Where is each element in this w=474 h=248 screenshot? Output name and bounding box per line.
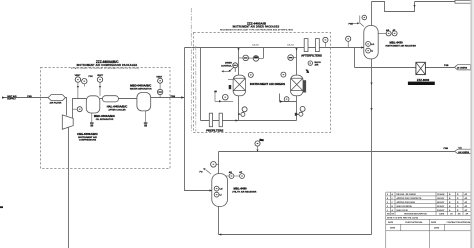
svg-text:INSTRUMENT AIR DRIERS: INSTRUMENT AIR DRIERS (250, 82, 285, 86)
svg-text:0: 0 (392, 198, 393, 200)
svg-text:VENT: VENT (97, 75, 103, 77)
svg-text:NOTE: P. ID SYM. PER STD 123 N: NOTE: P. ID SYM. PER STD 123 ND (387, 217, 419, 219)
svg-text:2: 2 (387, 206, 388, 208)
svg-text:PSV: PSV (89, 76, 94, 78)
svg-text:ISSD FOR ID: ISSD FOR ID (397, 210, 409, 212)
svg-text:PSB: PSB (444, 65, 449, 67)
svg-text:APPROX LOCATION: APPROX LOCATION (411, 82, 432, 85)
svg-text:UA USERS: UA USERS (458, 151, 470, 154)
svg-text:DATE: DATE (388, 221, 394, 224)
svg-text:HAL-6400A/B/C: HAL-6400A/B/C (107, 105, 128, 109)
svg-text:AE: AE (229, 171, 233, 174)
svg-text:1: 1 (387, 210, 388, 212)
svg-text:AIR: AIR (315, 64, 319, 67)
svg-text:REGENERATIVE DESICCANT TYPE C/: REGENERATIVE DESICCANT TYPE C/W PREFILTE… (220, 29, 294, 32)
svg-text:PSB: PSB (27, 96, 32, 98)
svg-text:VENT: VENT (156, 77, 162, 79)
svg-text:ISSD FOR REVW: ISSD FOR REVW (397, 206, 412, 208)
svg-text:LG: LG (220, 188, 223, 190)
svg-text:INSTRUMENT AIR COMPRESSOR PACK: INSTRUMENT AIR COMPRESSOR PACKAGES (77, 64, 138, 67)
svg-text:CBE-6400A/B/C: CBE-6400A/B/C (77, 132, 98, 136)
svg-text:INST AIR: INST AIR (7, 95, 17, 98)
svg-text:PSB: PSB (171, 96, 176, 98)
svg-text:AIR FILTER: AIR FILTER (50, 102, 62, 105)
svg-text:MBL-6430: MBL-6430 (390, 41, 404, 45)
svg-text:MBD-6400A/B/C: MBD-6400A/B/C (130, 83, 151, 87)
svg-text:2-IA-002: 2-IA-002 (287, 44, 294, 47)
svg-text:VENT: VENT (75, 75, 81, 77)
svg-text:01/05/07: 01/05/07 (437, 210, 444, 212)
svg-text:5: 5 (387, 194, 388, 196)
svg-text:APPRVD FOR CONSTRCTN: APPRVD FOR CONSTRCTN (397, 197, 422, 200)
svg-text:2-IA-001: 2-IA-001 (252, 44, 259, 47)
svg-text:PREFILTERS: PREFILTERS (206, 128, 223, 132)
svg-text:FO: FO (200, 172, 203, 174)
svg-text:AE: AE (386, 29, 390, 32)
svg-text:IA USERS: IA USERS (457, 66, 468, 69)
svg-text:COMPRESSORS: COMPRESSORS (79, 140, 97, 142)
svg-text:CONTRACTOR APPROVAL: CONTRACTOR APPROVAL (447, 221, 472, 224)
svg-text:CLIENT APPROVAL: CLIENT APPROVAL (405, 221, 423, 224)
svg-text:INSTRUMENT AIR: INSTRUMENT AIR (78, 136, 97, 139)
svg-text:REVISION DESCRIPTION: REVISION DESCRIPTION (404, 214, 427, 216)
svg-text:MBL-6480: MBL-6480 (234, 186, 248, 190)
svg-text:DATE: DATE (439, 213, 445, 216)
svg-text:CONTROL: CONTROL (221, 65, 232, 67)
svg-text:ZZZ-6000: ZZZ-6000 (417, 78, 430, 82)
svg-text:05/21/07: 05/21/07 (437, 202, 444, 204)
svg-text:PSB: PSB (444, 148, 449, 150)
svg-text:10/01/07: 10/01/07 (437, 198, 444, 200)
svg-text:ROTARY SCREW TYPE C/W INLET FI: ROTARY SCREW TYPE C/W INLET FILTERS AND … (71, 67, 139, 70)
svg-text:PSE: PSE (349, 24, 354, 26)
svg-text:RE ISSD - RE CHNGD: RE ISSD - RE CHNGD (397, 194, 417, 196)
svg-text:03/10/07: 03/10/07 (437, 206, 444, 208)
svg-text:MBD-6400A/B/C: MBD-6400A/B/C (94, 114, 115, 118)
svg-text:AFTERFILTERS: AFTERFILTERS (301, 53, 322, 57)
svg-text:INSTRUMENT AIR DRIER PACKAGES: INSTRUMENT AIR DRIER PACKAGES (233, 26, 280, 29)
svg-text:AFTER COOLER: AFTER COOLER (108, 109, 126, 112)
svg-text:DATE: DATE (390, 227, 396, 230)
svg-text:OIL SEPARATOR: OIL SEPARATOR (96, 118, 114, 121)
svg-text:UTILITY AIR RECEIVER: UTILITY AIR RECEIVER (232, 190, 257, 193)
svg-text:UA: UA (459, 146, 463, 149)
svg-text:DATE: DATE (431, 221, 437, 224)
svg-text:3: 3 (387, 202, 388, 204)
svg-text:LG: LG (371, 44, 374, 46)
svg-text:12/16/08: 12/16/08 (437, 194, 444, 196)
svg-text:SUPPLY: SUPPLY (7, 99, 16, 101)
svg-text:WATER SEPARATOR: WATER SEPARATOR (130, 88, 152, 91)
svg-text:APPRVD FOR DSGN: APPRVD FOR DSGN (397, 201, 416, 204)
svg-text:INSTRUMENT AIR RECEIVER: INSTRUMENT AIR RECEIVER (386, 45, 417, 48)
svg-text:DATE: DATE (434, 227, 440, 230)
